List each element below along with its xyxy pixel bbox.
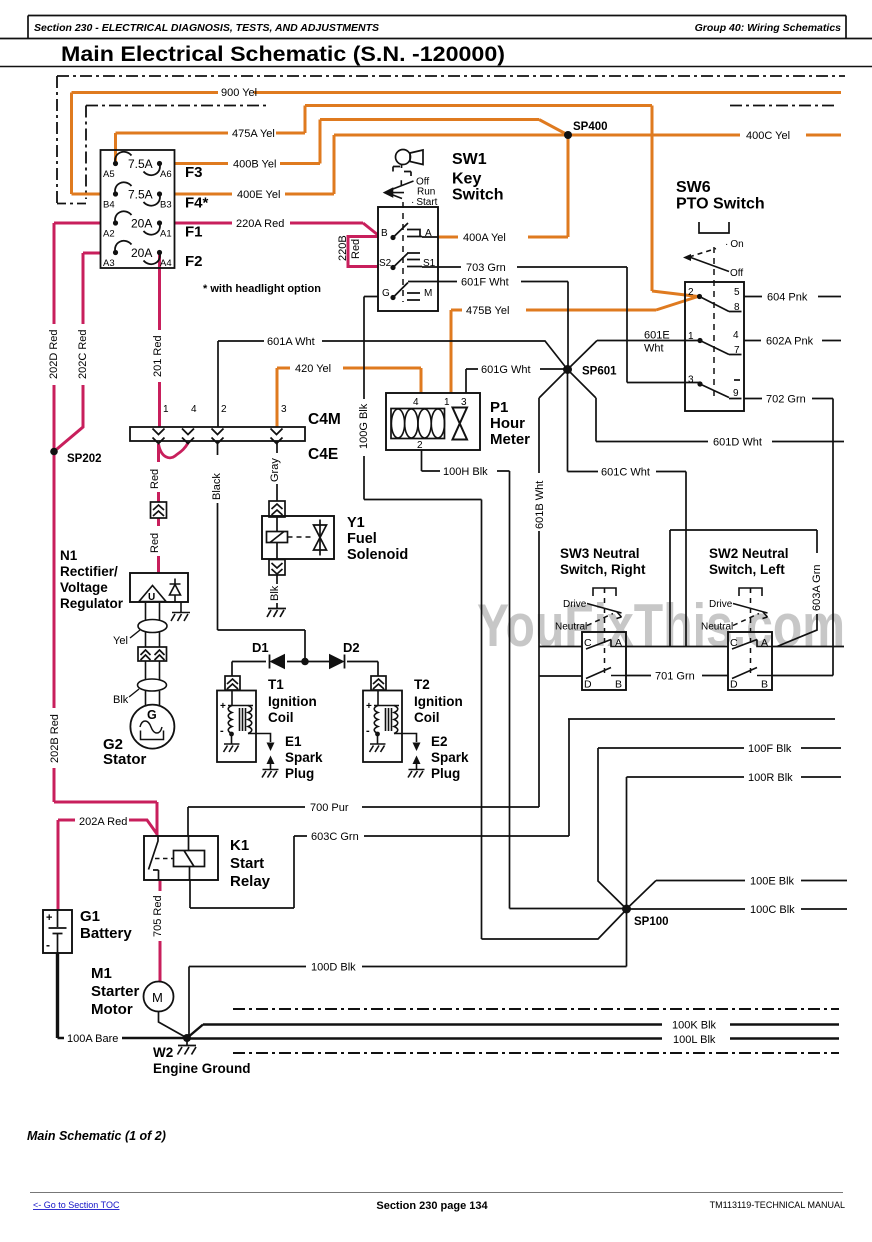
svg-text:M1: M1: [91, 965, 112, 982]
svg-text:701 Grn: 701 Grn: [655, 671, 695, 683]
wire Black C4E-2: [218, 441, 306, 662]
SW1 center dashed line: [402, 202, 404, 302]
svg-text:C: C: [584, 637, 592, 649]
svg-text:602A Pnk: 602A Pnk: [766, 336, 814, 348]
SW3 C-A row: [586, 640, 626, 650]
SW3 drive blade: [587, 604, 622, 619]
svg-text:Wht: Wht: [644, 343, 664, 355]
SW2 dashed center: [750, 598, 752, 676]
svg-text:4: 4: [733, 330, 739, 341]
ignition coil T1 box: [217, 691, 256, 763]
wire 202D Red: [54, 223, 101, 452]
SW6 pin2 blade: [700, 297, 742, 312]
svg-text:601G Wht: 601G Wht: [481, 364, 531, 376]
Y1 dashed link: [288, 536, 314, 538]
svg-text:Drive: Drive: [709, 599, 733, 610]
svg-text:3: 3: [281, 404, 287, 415]
svg-text:SP100: SP100: [634, 916, 669, 928]
svg-text:K1: K1: [230, 837, 249, 854]
diode D1: [270, 655, 285, 669]
svg-text:3: 3: [688, 375, 694, 386]
wire 705 Red: [159, 880, 162, 982]
K1 blade and contact: [149, 836, 190, 880]
svg-text:Section 230 page 134: Section 230 page 134: [376, 1200, 488, 1212]
svg-text:A: A: [761, 637, 768, 649]
stator G2 circle: [130, 705, 174, 749]
svg-text:475B Yel: 475B Yel: [466, 305, 509, 317]
fuse F4 arcs: [115, 182, 160, 205]
svg-text:2: 2: [221, 404, 227, 415]
outer dash-dot border left: [56, 76, 58, 203]
wire 603C Grn: [190, 836, 569, 908]
svg-text:400B Yel: 400B Yel: [233, 159, 276, 171]
svg-text:20A: 20A: [131, 217, 152, 231]
title rule: [0, 66, 872, 68]
svg-text:9: 9: [733, 388, 739, 399]
outer dash-dot border top: [57, 75, 845, 77]
SW3 D-B row: [586, 668, 626, 679]
wire 100K Blk: [187, 1025, 839, 1039]
svg-text:Coil: Coil: [414, 710, 440, 725]
svg-text:Black: Black: [211, 473, 223, 500]
svg-text:B: B: [381, 228, 388, 239]
wire 601E Wht: [568, 341, 701, 370]
svg-text:-: -: [46, 938, 50, 952]
svg-text:Plug: Plug: [285, 766, 314, 781]
bottom dash-dot lower: [233, 1052, 839, 1054]
wire 900 Yel vertical: [70, 93, 73, 195]
svg-text:202D Red: 202D Red: [48, 329, 60, 379]
wire 603A Grn: [777, 530, 817, 647]
wire 100E Blk: [627, 881, 848, 910]
wire 601F Wht: [408, 282, 568, 370]
header box: [0, 16, 872, 39]
svg-text:220B: 220B: [337, 235, 349, 261]
SW6 connector bracket: [699, 222, 729, 233]
svg-text:100A Bare: 100A Bare: [67, 1033, 118, 1045]
svg-text:C4M: C4M: [308, 411, 341, 428]
junction SP601: [563, 365, 572, 374]
wire 100H Blk: [422, 450, 627, 909]
SW3 neutral dashed blade: [587, 614, 613, 626]
svg-text:Ignition: Ignition: [414, 694, 463, 709]
svg-text:D2: D2: [343, 640, 360, 655]
svg-text:SP400: SP400: [573, 121, 608, 133]
svg-text:601B Wht: 601B Wht: [534, 481, 546, 529]
svg-text:Blk: Blk: [113, 694, 129, 706]
svg-text:100D Blk: 100D Blk: [311, 962, 356, 974]
svg-text:8: 8: [734, 302, 740, 313]
svg-text:· On: · On: [725, 239, 744, 250]
wire 900 Yel to fuse B4: [72, 193, 102, 196]
svg-text:S1: S1: [423, 258, 436, 269]
SW1 row S2-S1 contact: [393, 253, 438, 268]
svg-text:100C Blk: 100C Blk: [750, 904, 795, 916]
svg-text:-: -: [366, 725, 370, 737]
svg-text:A6: A6: [160, 169, 172, 180]
W2 ground junction dot: [183, 1034, 191, 1042]
N1 ground: [171, 613, 190, 622]
wire 100R Blk: [627, 777, 842, 909]
svg-text:1: 1: [444, 397, 450, 408]
svg-text:5: 5: [734, 287, 740, 298]
svg-text:Run: Run: [417, 187, 435, 198]
svg-text:YouFixThis.com: YouFixThis.com: [477, 592, 845, 659]
svg-text:7: 7: [734, 345, 740, 356]
wire M1 to ground point: [159, 1012, 188, 1039]
svg-text:D: D: [730, 679, 738, 691]
svg-text:Engine Ground: Engine Ground: [153, 1061, 251, 1076]
svg-text:Main Schematic (1 of 2): Main Schematic (1 of 2): [27, 1129, 166, 1143]
wire 100A Bare: [56, 953, 59, 1038]
fuel solenoid Y1 box: [262, 516, 334, 559]
N1 diode: [170, 579, 181, 603]
wire 475B Yel: [451, 297, 698, 394]
svg-text:<- Go to Section TOC: <- Go to Section TOC: [33, 1200, 120, 1210]
ignition coil T2 box: [363, 691, 402, 763]
svg-text:2: 2: [417, 440, 423, 451]
wire 220B Red jumper: [348, 237, 378, 267]
N1 triangle with U: [139, 586, 166, 602]
svg-text:Yel: Yel: [113, 635, 128, 647]
svg-text:SW3 Neutral: SW3 Neutral: [560, 546, 640, 561]
wire to SW3 D: [539, 675, 582, 677]
svg-text:A5: A5: [103, 169, 115, 180]
svg-text:F1: F1: [185, 224, 203, 241]
SW6 dash above 9: [734, 379, 740, 381]
wire 601G Wht: [466, 369, 568, 393]
SW2 connector bracket: [739, 588, 762, 596]
wire 202B Red: [54, 452, 157, 837]
wire 100D Blk: [189, 909, 627, 1038]
bottom dash-dot upper: [233, 1008, 839, 1010]
fuse F3 arcs: [115, 152, 160, 175]
svg-text:P1: P1: [490, 399, 508, 416]
wire 400A Yel: [438, 135, 568, 237]
SW6 center dashed: [713, 247, 715, 400]
SW1 contact dots: [390, 235, 395, 240]
svg-text:Switch, Right: Switch, Right: [560, 562, 646, 577]
chevron box T1: [225, 676, 240, 690]
svg-text:100G Blk: 100G Blk: [358, 403, 370, 449]
SW3 connector bracket: [593, 588, 616, 596]
svg-text:B3: B3: [160, 200, 172, 211]
SW3 dashed center: [604, 598, 606, 676]
chevron box below Y1: [269, 560, 285, 576]
svg-text:Starter: Starter: [91, 983, 140, 1000]
inner dash-dot border top-left: [86, 105, 270, 107]
T2 spark gap arrows: [413, 743, 421, 752]
svg-text:400A Yel: 400A Yel: [463, 232, 506, 244]
svg-text:Motor: Motor: [91, 1001, 133, 1018]
svg-text:F2: F2: [185, 253, 203, 270]
svg-text:100F Blk: 100F Blk: [748, 743, 792, 755]
svg-text:B: B: [615, 679, 622, 691]
K1 dashes: [155, 858, 173, 860]
wire 603C up to 719: [568, 719, 835, 836]
svg-text:702 Grn: 702 Grn: [766, 394, 806, 406]
hour meter coil loops: [391, 409, 444, 438]
wire 201 Red: [158, 253, 161, 428]
wire 601C Wht: [568, 370, 687, 647]
svg-text:SW1: SW1: [452, 151, 487, 168]
svg-text:Solenoid: Solenoid: [347, 547, 408, 563]
rectifier N1 box: [130, 573, 188, 602]
SW2 C-A row: [732, 640, 772, 650]
C4 pin 3 chevrons: [271, 429, 283, 444]
key switch SW1 icon: [393, 150, 423, 177]
wire T1 primary feed: [232, 662, 266, 677]
footer rule: [30, 1192, 843, 1194]
svg-text:S2: S2: [379, 258, 392, 269]
SW2 D-B row: [732, 668, 772, 679]
svg-text:202B Red: 202B Red: [49, 714, 61, 763]
svg-text:M: M: [152, 990, 163, 1005]
svg-text:100E Blk: 100E Blk: [750, 876, 795, 888]
wire 220A Red: [174, 223, 378, 235]
svg-text:601E: 601E: [644, 330, 670, 342]
svg-text:7.5A: 7.5A: [128, 157, 153, 171]
svg-text:Red: Red: [350, 239, 362, 259]
wire 701 Grn: [626, 675, 728, 677]
start relay K1 box: [144, 836, 218, 880]
wire 602A Pnk: [744, 340, 841, 342]
svg-text:Blk: Blk: [269, 585, 281, 601]
svg-text:E1: E1: [285, 734, 302, 749]
SW2 neutral dashed blade: [733, 614, 759, 626]
svg-text:604 Pnk: 604 Pnk: [767, 292, 808, 304]
N1 ground stem: [180, 602, 182, 612]
svg-text:+: +: [220, 701, 226, 712]
svg-text:Voltage: Voltage: [60, 580, 108, 595]
svg-text:Ignition: Ignition: [268, 694, 317, 709]
wire 601D Wht: [568, 370, 845, 442]
svg-text:3: 3: [461, 397, 467, 408]
svg-text:2: 2: [688, 287, 694, 298]
svg-text:Red: Red: [149, 533, 161, 553]
svg-text:Red: Red: [149, 469, 161, 489]
SW6 toggle dashed line to On: [689, 249, 716, 258]
junction SP400: [564, 131, 572, 139]
svg-text:Key: Key: [452, 171, 481, 188]
svg-text:B4: B4: [103, 200, 115, 211]
svg-text:400E Yel: 400E Yel: [237, 189, 280, 201]
svg-text:4: 4: [191, 404, 197, 415]
svg-text:Gray: Gray: [269, 458, 281, 482]
wire 400E Yel: [174, 135, 568, 194]
SW6 toggle arrowhead: [683, 254, 691, 261]
svg-text:W2: W2: [153, 1045, 173, 1060]
svg-text:601F Wht: 601F Wht: [461, 277, 509, 289]
Y1 wire through: [276, 441, 278, 608]
wire 100C Blk: [627, 908, 848, 910]
svg-text:SP601: SP601: [582, 366, 617, 378]
fuse F1 arcs: [115, 211, 160, 234]
junction SP202: [50, 448, 58, 456]
wire 703 Grn: [438, 267, 700, 383]
svg-text:Y1: Y1: [347, 515, 365, 531]
svg-text:601C Wht: 601C Wht: [601, 467, 650, 479]
svg-text:U: U: [148, 592, 155, 603]
svg-text:E2: E2: [431, 734, 448, 749]
svg-text:100K Blk: 100K Blk: [672, 1020, 717, 1032]
T1 primary dot: [229, 732, 234, 737]
svg-text:705 Red: 705 Red: [152, 895, 164, 937]
wire T2 primary feed: [347, 662, 378, 677]
svg-text:7.5A: 7.5A: [128, 188, 153, 202]
wire 475A Yel from fuse top: [116, 106, 699, 297]
SW3 box: [582, 632, 626, 690]
diode D2: [330, 655, 345, 669]
svg-text:1: 1: [163, 404, 169, 415]
svg-text:Spark: Spark: [431, 750, 469, 765]
svg-text:Drive: Drive: [563, 599, 587, 610]
battery G1 box: [43, 910, 72, 953]
starter motor M1 circle: [144, 982, 174, 1012]
wire C4E jumper pin1-pin4: [159, 443, 189, 458]
outer dash-dot border corner: [57, 203, 88, 205]
wire D1-D2 center: [287, 661, 329, 663]
C4 pin 4 chevrons: [182, 429, 194, 444]
hour meter coil rect: [391, 409, 445, 439]
wire 420 Yel: [277, 368, 421, 427]
svg-text:202C Red: 202C Red: [77, 329, 89, 379]
SW1 row G-M contact: [393, 283, 420, 301]
SW1 box: [378, 207, 438, 311]
wire 601B Wht: [539, 370, 568, 808]
svg-text:Neutral: Neutral: [555, 622, 587, 633]
fuse box F1-F4 outline: [101, 150, 175, 268]
svg-text:Off: Off: [730, 268, 743, 279]
wire 702 Grn: [744, 398, 833, 400]
svg-text:Group 40: Wiring Schematics: Group 40: Wiring Schematics: [695, 22, 842, 34]
svg-text:603A Grn: 603A Grn: [811, 565, 823, 611]
wire 700 Pur: [188, 807, 539, 836]
svg-text:Hour: Hour: [490, 415, 525, 432]
Y1 coil rect: [267, 532, 288, 543]
svg-text:M: M: [424, 288, 432, 299]
svg-text:Rectifier/: Rectifier/: [60, 564, 118, 579]
T2 primary dot: [375, 732, 380, 737]
svg-text:Fuel: Fuel: [347, 531, 377, 547]
svg-text:Stator: Stator: [103, 751, 147, 768]
SW6 pin dots: [697, 294, 702, 299]
fuse F2 arcs: [115, 241, 160, 264]
inner dash-dot border left: [85, 106, 87, 200]
svg-text:TM113119-TECHNICAL MANUAL: TM113119-TECHNICAL MANUAL: [710, 1200, 845, 1210]
T2 internals: [370, 691, 425, 778]
svg-text:A3: A3: [103, 258, 115, 269]
svg-text:Coil: Coil: [268, 710, 294, 725]
hour meter hourglass: [453, 408, 468, 440]
T1 internals: [224, 691, 279, 778]
ground below Y1: [267, 609, 286, 618]
svg-text:G: G: [147, 708, 157, 722]
SW2 box: [728, 632, 772, 690]
svg-text:703 Grn: 703 Grn: [466, 262, 506, 274]
wire 601A Wht: [218, 341, 568, 427]
SW6 pin1 blade: [700, 341, 742, 355]
wire 900 Yel horizontal: [72, 91, 842, 94]
svg-text:A2: A2: [103, 229, 115, 240]
svg-text:D: D: [584, 679, 592, 691]
svg-text:Plug: Plug: [431, 766, 460, 781]
svg-text:Relay: Relay: [230, 873, 271, 890]
wire top link SW3-SW2: [670, 530, 817, 647]
wire 400B Yel: [174, 120, 568, 164]
key switch rotary arrow: [385, 180, 414, 198]
SW6 toggle solid line to Off: [688, 257, 729, 272]
svg-text:Switch: Switch: [452, 187, 504, 204]
svg-text:1: 1: [688, 331, 694, 342]
junction D1-D2 node: [301, 658, 309, 666]
svg-text:SW6: SW6: [676, 179, 711, 196]
svg-text:475A Yel: 475A Yel: [232, 128, 275, 140]
svg-text:202A Red: 202A Red: [79, 816, 127, 828]
svg-text:F3: F3: [185, 164, 203, 181]
svg-text:* with headlight option: * with headlight option: [203, 283, 321, 295]
svg-text:A: A: [425, 228, 432, 239]
svg-text:100L Blk: 100L Blk: [673, 1034, 716, 1046]
svg-text:SP202: SP202: [67, 453, 102, 465]
svg-text:D1: D1: [252, 640, 269, 655]
chevron box T2: [371, 676, 386, 690]
svg-text:601A Wht: 601A Wht: [267, 336, 315, 348]
svg-text:Regulator: Regulator: [60, 596, 124, 611]
svg-text:Neutral: Neutral: [701, 622, 733, 633]
svg-text:+: +: [46, 912, 52, 924]
svg-text:A1: A1: [160, 229, 172, 240]
wire 100L Blk: [187, 1037, 839, 1039]
T1 spark gap arrows: [267, 743, 275, 752]
svg-text:400C Yel: 400C Yel: [746, 130, 790, 142]
SW1 row B-A contact: [393, 223, 438, 238]
wire 100F Blk: [598, 748, 841, 909]
connector chevron box on Red: [151, 502, 167, 518]
svg-text:N1: N1: [60, 548, 78, 563]
svg-text:PTO Switch: PTO Switch: [676, 196, 765, 213]
svg-text:Section 230 - ELECTRICAL DIAGN: Section 230 - ELECTRICAL DIAGNOSIS, TEST…: [34, 22, 379, 34]
harness loop lower: [138, 679, 167, 691]
SW6 pin3 blade: [700, 384, 742, 399]
svg-text:G1: G1: [80, 908, 100, 925]
svg-text:700 Pur: 700 Pur: [310, 802, 349, 814]
svg-text:220A Red: 220A Red: [236, 218, 284, 230]
svg-text:T1: T1: [268, 677, 284, 692]
stator wires Yel pair: [146, 602, 160, 706]
svg-text:+: +: [366, 701, 372, 712]
fuse terminal dots: [113, 161, 118, 166]
bracket in stator: [141, 731, 164, 740]
svg-text:C4E: C4E: [308, 446, 338, 463]
svg-text:F4*: F4*: [185, 195, 209, 212]
svg-text:900 Yel: 900 Yel: [221, 87, 257, 99]
svg-text:G: G: [382, 288, 390, 299]
W2 ground symbol: [178, 1038, 197, 1055]
svg-text:Battery: Battery: [80, 925, 132, 942]
svg-text:100R Blk: 100R Blk: [748, 772, 793, 784]
sine wave: [140, 721, 162, 733]
SW2 drive blade: [733, 604, 768, 619]
C4 pin 1 chevrons: [153, 429, 165, 444]
hour meter P1 box: [386, 393, 480, 450]
svg-text:Spark: Spark: [285, 750, 323, 765]
svg-text:601D Wht: 601D Wht: [713, 437, 762, 449]
wire 400C Yel: [568, 134, 841, 137]
inner dash-dot border top-right: [730, 105, 838, 107]
wire 604 Pnk: [744, 296, 841, 298]
svg-text:C: C: [730, 637, 738, 649]
